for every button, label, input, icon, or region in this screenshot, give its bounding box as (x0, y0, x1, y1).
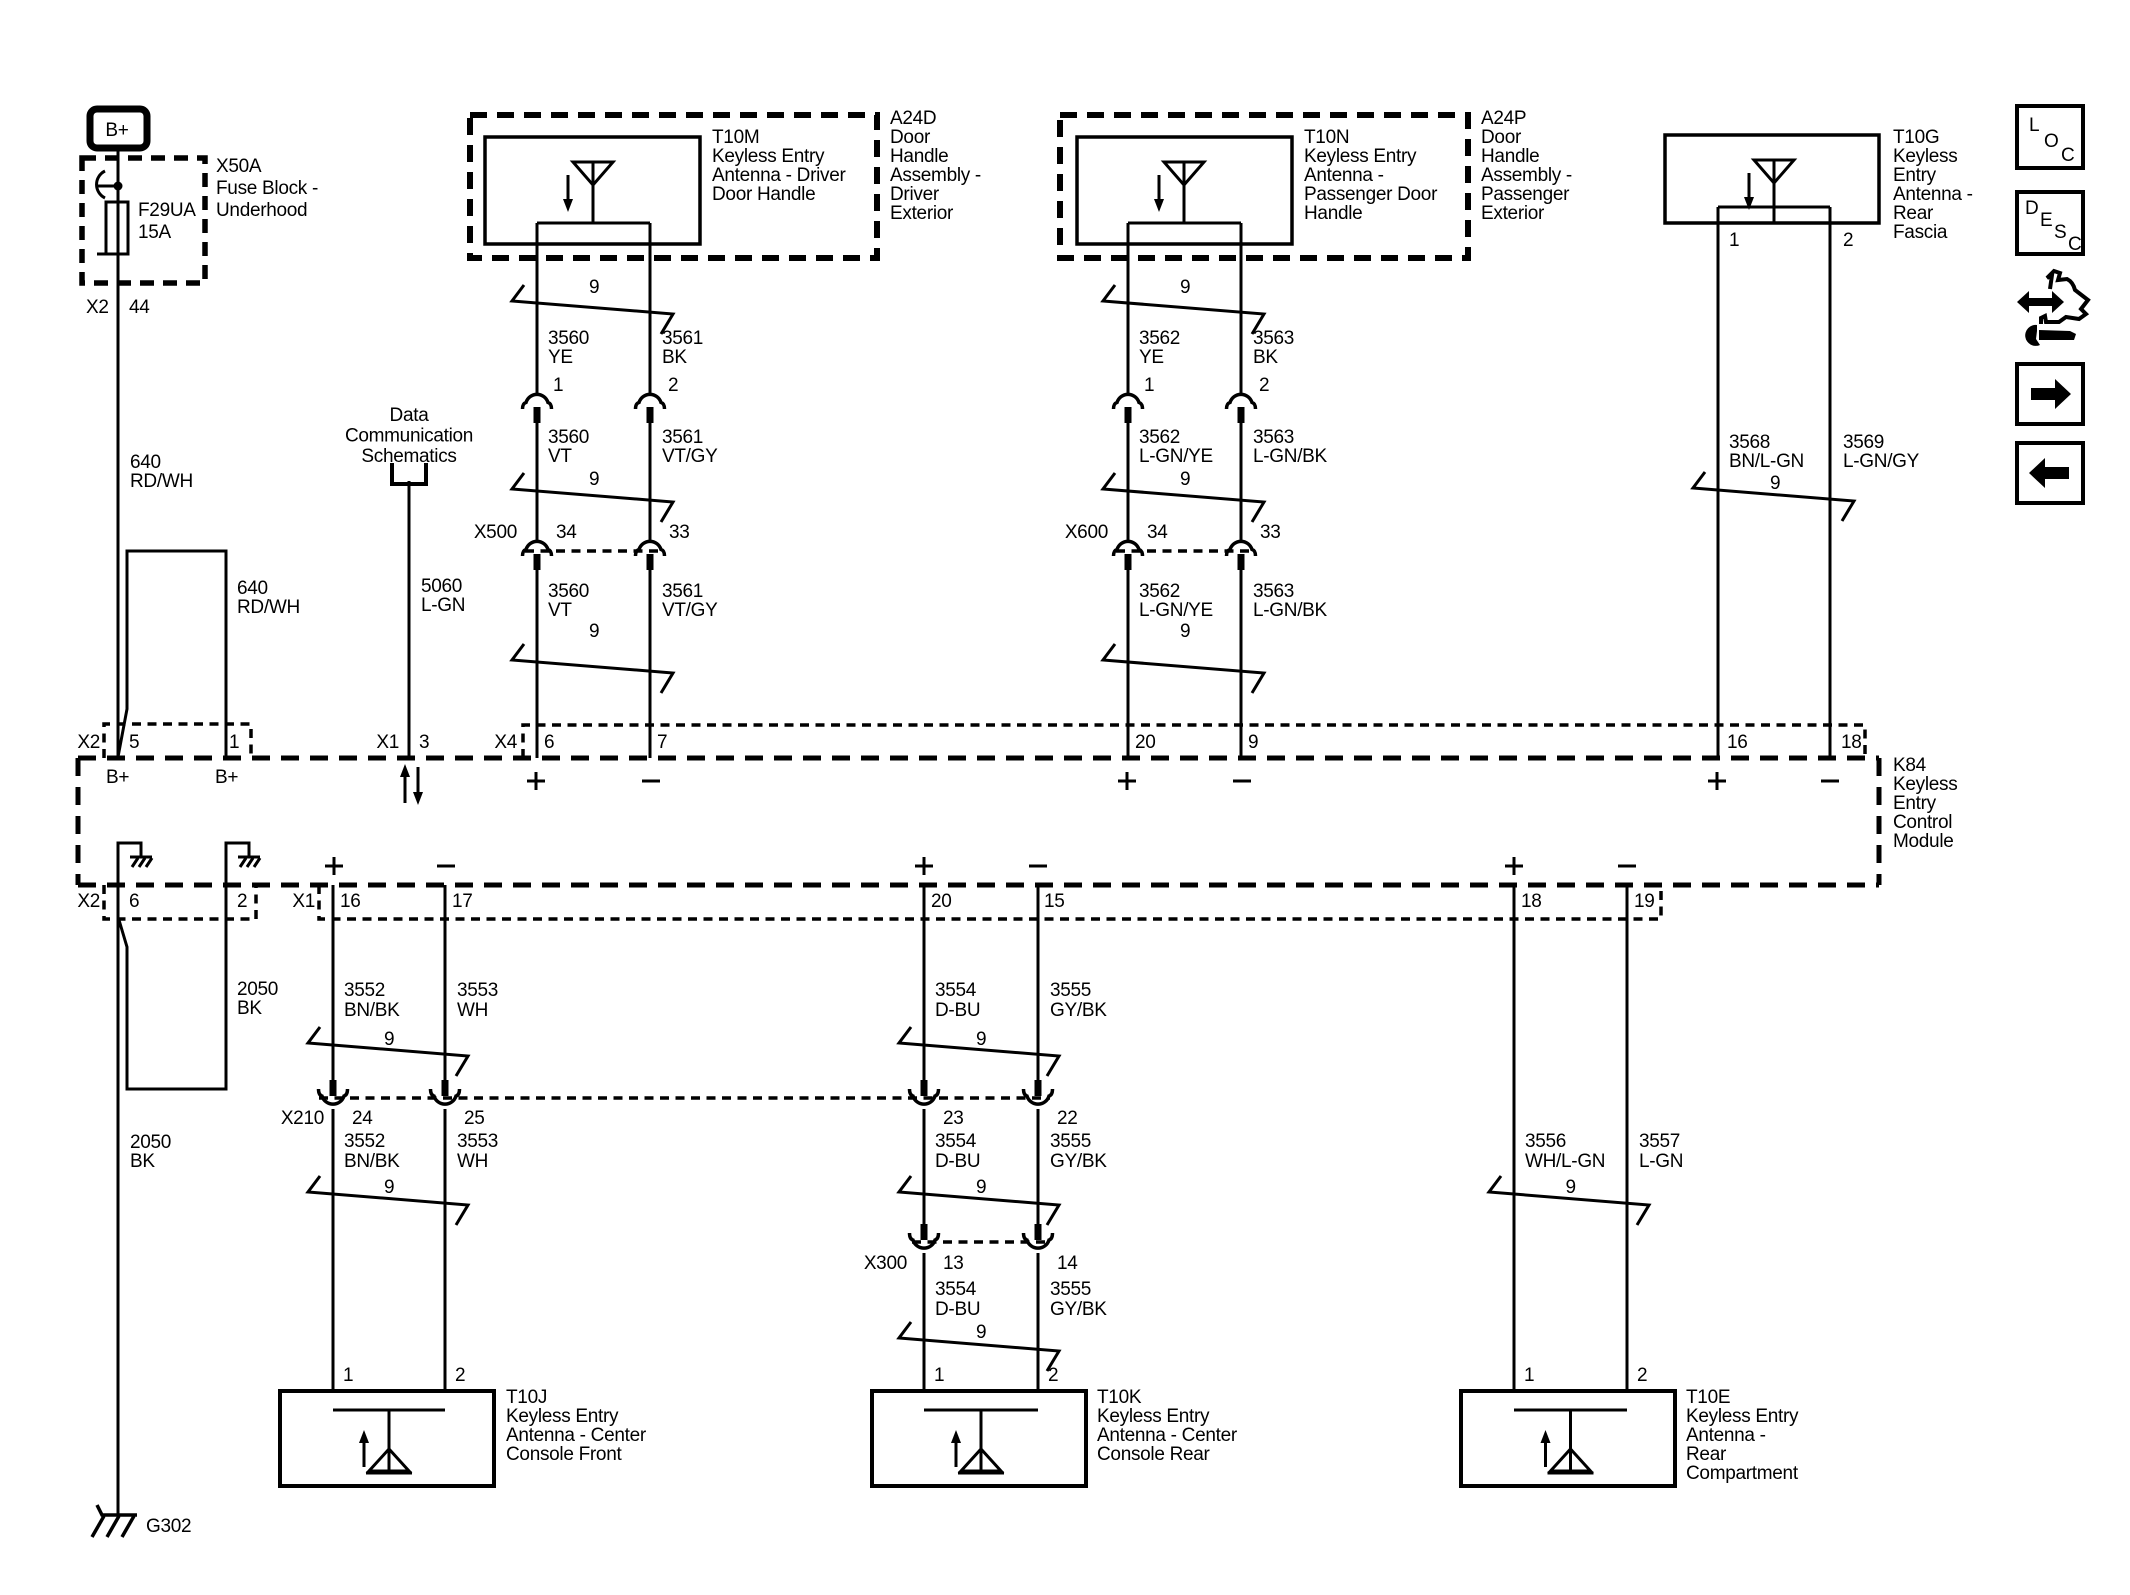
svg-text:3560: 3560 (548, 581, 589, 602)
svg-text:24: 24 (352, 1108, 373, 1129)
ground G302 (97, 1505, 137, 1515)
connector box X2 top (104, 724, 251, 758)
wire 3555 GY/BK from module (1037, 885, 1040, 1081)
polarity plus pin20 (1118, 780, 1136, 783)
wire VT to module (536, 566, 539, 758)
wire 3556 WH/L-GN from module (1513, 885, 1516, 1391)
polarity minus pin15 (1029, 865, 1047, 868)
svg-text:2: 2 (1048, 1365, 1058, 1386)
connector box X4 top (523, 725, 1865, 758)
svg-text:Keyless Entry: Keyless Entry (1097, 1406, 1210, 1427)
terminal clip in fuse block (97, 171, 105, 198)
antenna symbol T10J (359, 1410, 412, 1473)
svg-text:Passenger Door: Passenger Door (1304, 184, 1438, 205)
svg-text:E: E (2040, 210, 2052, 231)
nav button DESC (2017, 192, 2083, 254)
svg-text:3562: 3562 (1139, 581, 1180, 602)
svg-text:9: 9 (1180, 621, 1190, 642)
antenna T10J box (280, 1391, 494, 1486)
connector X300 dotted line (912, 1240, 1050, 1244)
svg-text:BK: BK (237, 998, 262, 1019)
svg-text:YE: YE (1139, 347, 1164, 368)
antenna symbol T10G (1744, 160, 1794, 222)
svg-text:Driver: Driver (890, 184, 940, 205)
svg-text:44: 44 (129, 297, 150, 318)
svg-text:9: 9 (1566, 1177, 1576, 1198)
svg-text:2: 2 (1259, 375, 1269, 396)
door handle assembly T10NA box (1060, 115, 1468, 258)
svg-text:Module: Module (1893, 831, 1954, 852)
svg-text:Assembly -: Assembly - (1481, 165, 1572, 186)
svg-text:3: 3 (419, 732, 429, 753)
antenna T10E box (1461, 1391, 1675, 1486)
swap and wrench icon (2017, 291, 2064, 313)
svg-text:Antenna - Driver: Antenna - Driver (712, 165, 847, 186)
antenna symbol T10N (1154, 162, 1204, 224)
svg-text:Antenna -: Antenna - (1893, 184, 1973, 205)
svg-text:3561: 3561 (662, 427, 703, 448)
svg-text:3554: 3554 (935, 1131, 977, 1152)
svg-text:1: 1 (343, 1365, 353, 1386)
svg-text:1: 1 (229, 732, 239, 753)
polarity plus pin6 (527, 780, 545, 783)
svg-text:T10K: T10K (1097, 1387, 1142, 1408)
svg-text:9: 9 (1180, 277, 1190, 298)
wire 3554 D-BU lower (923, 1253, 926, 1391)
svg-text:23: 23 (943, 1108, 964, 1129)
svg-text:VT: VT (548, 446, 572, 467)
svg-text:1: 1 (1729, 230, 1739, 251)
svg-text:9: 9 (384, 1029, 394, 1050)
svg-text:3552: 3552 (344, 980, 385, 1001)
connector X600 (1116, 549, 1254, 553)
svg-text:9: 9 (976, 1029, 986, 1050)
wire 3555 GY/BK lower (1037, 1253, 1040, 1391)
svg-text:9: 9 (976, 1177, 986, 1198)
svg-text:L-GN/BK: L-GN/BK (1253, 446, 1328, 467)
inline connector pin 1 (1114, 394, 1143, 423)
svg-text:T10E: T10E (1686, 1387, 1730, 1408)
wire L-GN/YE segment (1127, 419, 1130, 541)
svg-text:YE: YE (548, 347, 573, 368)
wire 3561 BK pin2 (649, 223, 652, 394)
inline connector X300 pin 13 (910, 1224, 939, 1248)
svg-text:Keyless Entry: Keyless Entry (712, 146, 825, 167)
svg-text:6: 6 (544, 732, 554, 753)
wire L-GN/YE to module (1127, 566, 1130, 758)
svg-text:3562: 3562 (1139, 328, 1180, 349)
svg-text:Antenna - Center: Antenna - Center (506, 1425, 647, 1446)
wire 3552 BN/BK mid (332, 1109, 335, 1391)
twisted pair marker (1103, 473, 1264, 522)
svg-text:VT: VT (548, 600, 572, 621)
twisted pair marker (308, 1176, 468, 1225)
wire 3568 BN/L-GN (1717, 207, 1720, 758)
polarity minus pin X1-17 (437, 865, 455, 868)
wire VT/GY segment (649, 419, 652, 541)
data link arrows (404, 776, 407, 803)
svg-text:34: 34 (556, 522, 577, 543)
svg-text:Schematics: Schematics (361, 446, 456, 467)
twisted pair marker (899, 1176, 1059, 1225)
wire 3555 GY/BK mid (1037, 1109, 1040, 1231)
svg-text:A24D: A24D (890, 108, 936, 129)
svg-text:Keyless Entry: Keyless Entry (1686, 1406, 1799, 1427)
svg-text:C: C (2068, 234, 2081, 255)
svg-text:L-GN/GY: L-GN/GY (1843, 451, 1920, 472)
wire VT/GY to module (649, 566, 652, 758)
svg-text:G302: G302 (146, 1516, 191, 1537)
svg-text:T10M: T10M (712, 127, 759, 148)
svg-text:17: 17 (452, 891, 473, 912)
svg-text:2050: 2050 (237, 979, 278, 1000)
svg-text:L-GN/BK: L-GN/BK (1253, 600, 1328, 621)
svg-text:BN/L-GN: BN/L-GN (1729, 451, 1804, 472)
svg-text:X2: X2 (77, 732, 100, 753)
svg-text:K84: K84 (1893, 755, 1927, 776)
svg-text:3554: 3554 (935, 980, 977, 1001)
svg-text:X2: X2 (86, 297, 109, 318)
svg-text:L-GN/YE: L-GN/YE (1139, 600, 1213, 621)
svg-text:22: 22 (1057, 1108, 1078, 1129)
svg-text:D-BU: D-BU (935, 1151, 980, 1172)
svg-text:T10N: T10N (1304, 127, 1349, 148)
svg-text:9: 9 (589, 621, 599, 642)
polarity minus pin9 (1233, 780, 1251, 783)
svg-text:2: 2 (1637, 1365, 1647, 1386)
svg-text:Handle: Handle (890, 146, 948, 167)
svg-text:GY/BK: GY/BK (1050, 1000, 1107, 1021)
svg-text:1: 1 (553, 375, 563, 396)
svg-text:Door Handle: Door Handle (712, 184, 815, 205)
wire L-GN/BK to module (1240, 566, 1243, 758)
svg-text:15: 15 (1044, 891, 1065, 912)
svg-text:9: 9 (589, 469, 599, 490)
polarity plus pin16 (1708, 780, 1726, 783)
svg-text:33: 33 (1260, 522, 1281, 543)
polarity plus pin X1-16 (325, 865, 343, 868)
svg-text:3556: 3556 (1525, 1131, 1566, 1152)
inline connector X210 pin 24 (319, 1080, 348, 1104)
svg-text:18: 18 (1841, 732, 1862, 753)
polarity minus pin7 (642, 780, 660, 783)
connector X210 dotted line (319, 1096, 1050, 1100)
svg-text:O: O (2044, 131, 2058, 152)
svg-text:5060: 5060 (421, 576, 462, 597)
power symbol B+ (90, 109, 147, 148)
svg-text:GY/BK: GY/BK (1050, 1299, 1107, 1320)
svg-text:L: L (2029, 115, 2039, 136)
svg-text:3557: 3557 (1639, 1131, 1680, 1152)
wire 2050 BK loop X2-6 to X2-2 (119, 885, 226, 1089)
door handle assembly T10MA box (470, 115, 877, 258)
svg-text:16: 16 (340, 891, 361, 912)
svg-text:Handle: Handle (1481, 146, 1539, 167)
svg-text:6: 6 (129, 891, 139, 912)
wire 3553 WH mid (444, 1109, 447, 1391)
svg-text:Entry: Entry (1893, 793, 1937, 814)
svg-text:1: 1 (1524, 1365, 1534, 1386)
svg-text:X300: X300 (864, 1253, 907, 1274)
svg-text:640: 640 (237, 578, 268, 599)
svg-text:Compartment: Compartment (1686, 1463, 1799, 1484)
svg-text:13: 13 (943, 1253, 964, 1274)
svg-text:Fascia: Fascia (1893, 222, 1948, 243)
wire L-GN/BK segment (1240, 419, 1243, 541)
svg-text:Rear: Rear (1686, 1444, 1727, 1465)
antenna tap bus T10K (924, 1409, 1038, 1412)
svg-text:Exterior: Exterior (1481, 203, 1545, 224)
antenna tap bus T10G (1718, 206, 1830, 209)
inline connector X300 pin 14 (1024, 1224, 1053, 1248)
svg-text:34: 34 (1147, 522, 1168, 543)
svg-text:3569: 3569 (1843, 432, 1884, 453)
svg-text:T10G: T10G (1893, 127, 1939, 148)
antenna T10N box (1077, 137, 1292, 244)
svg-text:D-BU: D-BU (935, 1299, 980, 1320)
svg-text:1: 1 (934, 1365, 944, 1386)
svg-text:3555: 3555 (1050, 980, 1091, 1001)
svg-text:S: S (2054, 222, 2066, 243)
wire 3560 YE pin1 (536, 223, 539, 394)
wire VT segment (536, 419, 539, 541)
twisted pair marker (1693, 472, 1854, 521)
antenna T10G box (1665, 135, 1879, 223)
svg-text:T10J: T10J (506, 1387, 547, 1408)
antenna tap bus T10J (333, 1409, 445, 1412)
svg-text:Data: Data (390, 405, 430, 426)
wire 3552 BN/BK from module (332, 885, 335, 1081)
svg-text:L-GN: L-GN (421, 595, 465, 616)
svg-text:16: 16 (1727, 732, 1748, 753)
svg-text:WH: WH (457, 1151, 488, 1172)
svg-text:9: 9 (384, 1177, 394, 1198)
twisted pair marker (512, 644, 673, 693)
wire 5060 L-GN (408, 481, 411, 758)
svg-text:Entry: Entry (1893, 165, 1937, 186)
svg-text:3563: 3563 (1253, 581, 1294, 602)
twisted pair marker (512, 473, 673, 522)
svg-text:Door: Door (890, 127, 931, 148)
internal ground pin X2-2 (226, 843, 249, 885)
module K84 dashed outline (78, 756, 1879, 761)
svg-text:19: 19 (1634, 891, 1655, 912)
connector box X1 bottom (319, 885, 1661, 919)
svg-text:15A: 15A (138, 222, 172, 243)
svg-text:9: 9 (1248, 732, 1258, 753)
svg-text:Console Rear: Console Rear (1097, 1444, 1211, 1465)
svg-text:BN/BK: BN/BK (344, 1000, 400, 1021)
svg-text:5: 5 (129, 732, 139, 753)
wire 2050 BK to ground (117, 885, 120, 1515)
svg-text:14: 14 (1057, 1253, 1078, 1274)
svg-text:B+: B+ (106, 767, 129, 788)
svg-text:Console Front: Console Front (506, 1444, 622, 1465)
svg-text:20: 20 (1135, 732, 1156, 753)
wire 3554 D-BU mid (923, 1109, 926, 1231)
svg-text:9: 9 (589, 277, 599, 298)
svg-text:C: C (2061, 145, 2074, 166)
svg-text:Communication: Communication (345, 426, 473, 447)
polarity minus pin18 (1821, 780, 1839, 783)
svg-text:1: 1 (1144, 375, 1154, 396)
connector box X2 bottom (104, 885, 256, 919)
svg-text:Keyless: Keyless (1893, 774, 1957, 795)
svg-text:L-GN: L-GN (1639, 1151, 1683, 1172)
svg-text:640: 640 (130, 452, 161, 473)
svg-text:3561: 3561 (662, 581, 703, 602)
wire 3557 L-GN from module (1626, 885, 1629, 1391)
svg-text:Passenger: Passenger (1481, 184, 1570, 205)
svg-text:3553: 3553 (457, 980, 498, 1001)
svg-text:2: 2 (237, 891, 247, 912)
svg-text:X2: X2 (77, 891, 100, 912)
nav button forward arrow (2017, 364, 2083, 424)
wire 3569 L-GN/GY (1829, 207, 1832, 758)
svg-text:3552: 3552 (344, 1131, 385, 1152)
antenna symbol T10M (563, 162, 613, 224)
svg-text:X500: X500 (474, 522, 517, 543)
svg-text:3562: 3562 (1139, 427, 1180, 448)
svg-text:RD/WH: RD/WH (130, 471, 193, 492)
svg-text:BK: BK (130, 1151, 155, 1172)
inline connector pin 1 (523, 394, 552, 423)
svg-text:D: D (2025, 198, 2038, 219)
svg-text:3555: 3555 (1050, 1131, 1091, 1152)
twisted pair marker (1489, 1176, 1649, 1225)
svg-text:D-BU: D-BU (935, 1000, 980, 1021)
svg-text:L-GN/YE: L-GN/YE (1139, 446, 1213, 467)
svg-text:B+: B+ (215, 767, 238, 788)
svg-text:7: 7 (657, 732, 667, 753)
svg-text:X210: X210 (281, 1108, 324, 1129)
svg-text:F29UA: F29UA (138, 200, 196, 221)
antenna tap bus T10M (537, 222, 650, 225)
antenna tap bus T10E (1514, 1409, 1627, 1412)
inline connector X210 pin 22 (1024, 1080, 1053, 1104)
twisted pair marker (308, 1027, 468, 1076)
internal ground pin X2-6 (118, 843, 141, 885)
svg-text:VT/GY: VT/GY (662, 600, 718, 621)
polarity minus pin19 (1618, 865, 1636, 868)
inline connector X210 pin 25 (431, 1080, 460, 1104)
svg-text:2: 2 (668, 375, 678, 396)
svg-text:BK: BK (1253, 347, 1278, 368)
antenna symbol T10K (951, 1410, 1004, 1473)
svg-text:18: 18 (1521, 891, 1542, 912)
svg-text:Keyless Entry: Keyless Entry (1304, 146, 1417, 167)
inline connector X210 pin 23 (910, 1080, 939, 1104)
svg-text:3561: 3561 (662, 328, 703, 349)
wire 640 RD/WH fuse feed (117, 149, 120, 758)
svg-text:X4: X4 (494, 732, 517, 753)
svg-text:B+: B+ (105, 120, 128, 141)
antenna T10M box (485, 137, 700, 244)
svg-text:Fuse Block -: Fuse Block - (216, 178, 318, 199)
svg-text:3555: 3555 (1050, 1279, 1091, 1300)
svg-text:VT/GY: VT/GY (662, 446, 718, 467)
svg-text:3554: 3554 (935, 1279, 977, 1300)
svg-text:BN/BK: BN/BK (344, 1151, 400, 1172)
fuse F29UA 15A (106, 202, 128, 254)
svg-text:9: 9 (976, 1322, 986, 1343)
wire 3563 BK pin2 (1240, 223, 1243, 394)
fuse block X50A dashed box (82, 158, 205, 283)
nav button LOC (2017, 106, 2083, 168)
svg-text:Underhood: Underhood (216, 200, 307, 221)
svg-text:9: 9 (1770, 473, 1780, 494)
wire 3562 YE pin1 (1127, 223, 1130, 394)
svg-text:2: 2 (1843, 230, 1853, 251)
svg-text:2: 2 (455, 1365, 465, 1386)
svg-text:20: 20 (931, 891, 952, 912)
polarity plus pin18 bottom (1505, 865, 1523, 868)
antenna T10K box (872, 1391, 1086, 1486)
twisted pair marker (899, 1322, 1059, 1371)
svg-text:GY/BK: GY/BK (1050, 1151, 1107, 1172)
twisted pair marker (512, 285, 673, 334)
nav button back arrow (2017, 443, 2083, 503)
svg-text:Handle: Handle (1304, 203, 1362, 224)
twisted pair marker (1103, 285, 1264, 334)
wire 3553 WH from module (444, 885, 447, 1081)
svg-text:Keyless Entry: Keyless Entry (506, 1406, 619, 1427)
svg-text:Control: Control (1893, 812, 1952, 833)
svg-text:BK: BK (662, 347, 687, 368)
svg-text:X1: X1 (292, 891, 315, 912)
svg-text:X50A: X50A (216, 156, 262, 177)
wire 3554 D-BU from module (923, 885, 926, 1081)
svg-text:3568: 3568 (1729, 432, 1770, 453)
svg-text:Door: Door (1481, 127, 1522, 148)
svg-text:Antenna - Center: Antenna - Center (1097, 1425, 1238, 1446)
svg-text:3560: 3560 (548, 328, 589, 349)
svg-text:WH: WH (457, 1000, 488, 1021)
polarity plus pin20 bottom (915, 865, 933, 868)
svg-text:X1: X1 (376, 732, 399, 753)
svg-text:3563: 3563 (1253, 328, 1294, 349)
connector X500 (525, 549, 663, 553)
svg-text:Antenna -: Antenna - (1686, 1425, 1766, 1446)
svg-text:25: 25 (464, 1108, 485, 1129)
svg-text:Antenna -: Antenna - (1304, 165, 1384, 186)
wire 640 RD/WH loop X2-5 to X2-1 (118, 551, 226, 758)
svg-text:Rear: Rear (1893, 203, 1934, 224)
svg-text:3560: 3560 (548, 427, 589, 448)
inline connector pin 2 (636, 394, 665, 423)
svg-text:2050: 2050 (130, 1132, 171, 1153)
antenna tap bus T10N (1128, 222, 1241, 225)
svg-text:A24P: A24P (1481, 108, 1526, 129)
svg-text:RD/WH: RD/WH (237, 597, 300, 618)
twisted pair marker (1103, 644, 1264, 693)
svg-text:WH/L-GN: WH/L-GN (1525, 1151, 1605, 1172)
svg-text:X600: X600 (1065, 522, 1108, 543)
svg-text:3563: 3563 (1253, 427, 1294, 448)
twisted pair marker (899, 1027, 1059, 1076)
svg-text:Exterior: Exterior (890, 203, 954, 224)
svg-text:33: 33 (669, 522, 690, 543)
svg-text:Keyless: Keyless (1893, 146, 1957, 167)
svg-text:9: 9 (1180, 469, 1190, 490)
antenna symbol T10E (1541, 1410, 1594, 1473)
svg-text:Assembly -: Assembly - (890, 165, 981, 186)
inline connector pin 2 (1227, 394, 1256, 423)
svg-text:3553: 3553 (457, 1131, 498, 1152)
